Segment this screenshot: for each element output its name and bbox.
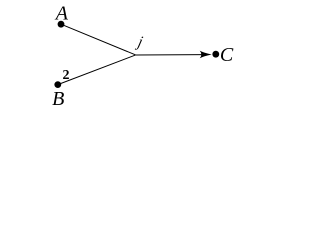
wire B to junction j <box>58 55 136 85</box>
wire junction j to C <box>136 54 204 56</box>
node B <box>54 81 61 88</box>
svg-text:C: C <box>220 44 234 66</box>
wire A to junction j <box>61 24 136 55</box>
svg-text:B: B <box>52 88 64 110</box>
svg-text:A: A <box>54 2 69 24</box>
arrowhead into C <box>200 51 212 59</box>
svg-text:j: j <box>134 34 144 51</box>
svg-text:2: 2 <box>63 68 70 83</box>
node A <box>58 21 65 28</box>
node C <box>212 51 219 58</box>
